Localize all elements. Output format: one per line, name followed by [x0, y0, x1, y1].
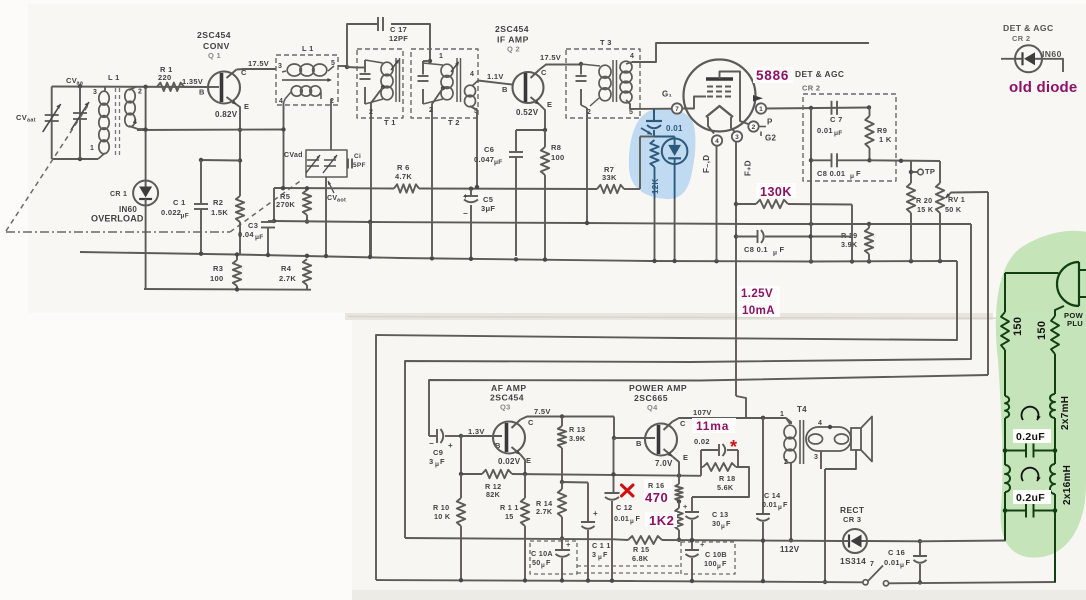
- svg-text:C3: C3: [248, 221, 258, 230]
- svg-text:RV 1: RV 1: [948, 195, 965, 204]
- svg-text:CV: CV: [66, 76, 77, 85]
- svg-text:B: B: [636, 439, 642, 448]
- svg-text:F: F: [546, 558, 551, 567]
- svg-text:E: E: [244, 102, 249, 111]
- svg-text:C6: C6: [484, 145, 494, 154]
- svg-text:μ: μ: [778, 504, 782, 511]
- svg-text:1: 1: [90, 145, 94, 152]
- svg-text:μ: μ: [435, 461, 439, 468]
- svg-text:4: 4: [470, 71, 474, 78]
- svg-text:B: B: [502, 85, 508, 94]
- svg-text:5: 5: [331, 60, 335, 67]
- svg-text:3.9K: 3.9K: [841, 240, 858, 249]
- svg-text:4: 4: [630, 53, 634, 60]
- svg-text:DET & AGC: DET & AGC: [1003, 23, 1054, 33]
- svg-text:F₊D: F₊D: [744, 160, 753, 176]
- svg-text:7.0V: 7.0V: [655, 459, 673, 468]
- svg-text:3: 3: [814, 454, 818, 461]
- svg-text:107V: 107V: [693, 408, 712, 417]
- svg-text:0.02V: 0.02V: [498, 457, 521, 466]
- svg-text:μ: μ: [598, 554, 602, 561]
- svg-text:+: +: [593, 509, 598, 518]
- svg-text:2x16mH: 2x16mH: [1062, 465, 1073, 505]
- svg-text:1: 1: [439, 53, 443, 60]
- svg-text:C 12: C 12: [616, 503, 632, 512]
- svg-text:270K: 270K: [276, 200, 295, 209]
- svg-text:5PF: 5PF: [353, 162, 366, 169]
- svg-text:4: 4: [818, 420, 822, 427]
- svg-text:R 1 1: R 1 1: [500, 503, 519, 512]
- svg-text:17.5V: 17.5V: [540, 53, 561, 62]
- svg-text:CVad: CVad: [284, 152, 303, 159]
- svg-text:C 1 1: C 1 1: [592, 541, 611, 550]
- svg-text:3μF: 3μF: [481, 204, 495, 213]
- svg-text:TP: TP: [925, 167, 935, 176]
- svg-text:G2: G2: [765, 134, 777, 143]
- svg-text:E: E: [547, 100, 552, 109]
- svg-text:F: F: [726, 519, 731, 528]
- svg-text:C9: C9: [433, 448, 443, 457]
- svg-text:+: +: [683, 502, 688, 511]
- svg-text:Q 1: Q 1: [208, 51, 221, 60]
- svg-text:F: F: [780, 245, 785, 254]
- svg-text:C 16: C 16: [888, 548, 905, 557]
- svg-text:112V: 112V: [780, 545, 800, 554]
- svg-text:0.01: 0.01: [762, 500, 777, 509]
- svg-text:R2: R2: [213, 198, 223, 207]
- svg-text:0.52V: 0.52V: [516, 108, 539, 117]
- svg-text:T 2: T 2: [448, 118, 460, 127]
- svg-text:1.3V: 1.3V: [468, 427, 485, 436]
- svg-text:CR 2: CR 2: [1012, 34, 1030, 43]
- svg-text:P: P: [767, 118, 773, 127]
- svg-text:F: F: [440, 457, 445, 466]
- svg-text:C: C: [528, 418, 534, 427]
- svg-text:2.7K: 2.7K: [279, 274, 296, 283]
- svg-text:7: 7: [870, 561, 874, 568]
- svg-text:+: +: [700, 540, 705, 549]
- svg-text:12K: 12K: [651, 178, 660, 194]
- svg-text:CR 1: CR 1: [110, 191, 127, 198]
- svg-text:μ: μ: [773, 250, 777, 257]
- svg-text:100: 100: [704, 559, 717, 568]
- svg-text:L 1: L 1: [108, 73, 120, 82]
- svg-text:3: 3: [592, 550, 596, 559]
- svg-text:R 20: R 20: [916, 196, 932, 205]
- svg-text:15: 15: [505, 512, 514, 521]
- svg-text:R 16: R 16: [648, 481, 664, 490]
- svg-text:C 13: C 13: [712, 510, 728, 519]
- svg-text:5886: 5886: [756, 68, 789, 83]
- svg-text:2: 2: [369, 109, 373, 116]
- svg-text:R8: R8: [551, 143, 561, 152]
- svg-text:130K: 130K: [760, 185, 792, 199]
- svg-text:0.022: 0.022: [161, 208, 181, 217]
- svg-text:1 K: 1 K: [879, 135, 892, 144]
- svg-text:3: 3: [278, 63, 282, 70]
- svg-text:DET & AGC: DET & AGC: [795, 69, 844, 79]
- svg-text:C5: C5: [483, 195, 493, 204]
- svg-text:OVERLOAD: OVERLOAD: [91, 214, 144, 224]
- svg-text:2SC454: 2SC454: [490, 393, 524, 403]
- svg-text:G₁: G₁: [662, 90, 673, 99]
- svg-text:100: 100: [551, 153, 564, 162]
- svg-text:old diode: old diode: [1009, 79, 1077, 96]
- svg-text:150: 150: [1012, 317, 1024, 336]
- svg-text:L 1: L 1: [302, 44, 314, 53]
- svg-text:E: E: [683, 453, 688, 462]
- svg-text:μF: μF: [255, 234, 264, 241]
- svg-text:PLU: PLU: [1067, 319, 1083, 328]
- svg-text:T 3: T 3: [600, 38, 612, 47]
- svg-text:3.9K: 3.9K: [569, 434, 586, 443]
- svg-text:5: 5: [629, 109, 633, 116]
- svg-text:0.04: 0.04: [238, 230, 254, 239]
- svg-text:μ: μ: [850, 173, 854, 180]
- svg-text:100: 100: [210, 274, 223, 283]
- svg-text:R 6: R 6: [397, 163, 410, 172]
- svg-text:R4: R4: [281, 264, 292, 273]
- svg-text:12PF: 12PF: [389, 34, 408, 43]
- svg-text:B: B: [199, 88, 205, 97]
- svg-text:F: F: [783, 500, 788, 509]
- svg-text:10mA: 10mA: [742, 305, 775, 317]
- svg-text:μ: μ: [900, 562, 904, 569]
- svg-text:CV: CV: [16, 113, 27, 122]
- svg-text:T4: T4: [797, 405, 807, 414]
- svg-text:1.5K: 1.5K: [211, 208, 228, 217]
- svg-text:F: F: [906, 558, 911, 567]
- svg-text:1.35V: 1.35V: [182, 77, 203, 86]
- svg-text:T 1: T 1: [384, 118, 396, 127]
- svg-text:0.047: 0.047: [474, 155, 494, 164]
- svg-text:C 14: C 14: [764, 491, 780, 500]
- svg-text:50 K: 50 K: [945, 205, 962, 214]
- svg-text:50: 50: [532, 558, 541, 567]
- svg-text:−: −: [463, 209, 468, 218]
- svg-text:Ci: Ci: [354, 153, 361, 160]
- svg-text:POWER AMP: POWER AMP: [629, 383, 687, 393]
- svg-text:2: 2: [784, 459, 788, 466]
- svg-text:C 17: C 17: [390, 25, 407, 34]
- svg-text:C 10B: C 10B: [705, 550, 727, 559]
- svg-text:μF: μF: [494, 159, 503, 166]
- svg-text:1S314: 1S314: [840, 556, 866, 566]
- svg-text:Q 2: Q 2: [507, 45, 520, 54]
- svg-text:RECT: RECT: [840, 505, 865, 515]
- svg-text:17.5V: 17.5V: [248, 59, 269, 68]
- svg-text:−: −: [429, 439, 434, 448]
- svg-text:C 10A: C 10A: [531, 549, 553, 558]
- svg-text:0.82V: 0.82V: [215, 110, 238, 119]
- svg-text:AF AMP: AF AMP: [491, 383, 527, 393]
- svg-text:+: +: [448, 441, 453, 450]
- svg-text:+: +: [463, 192, 468, 201]
- svg-text:3: 3: [93, 89, 97, 96]
- svg-text:5.6K: 5.6K: [717, 483, 734, 492]
- svg-text:1: 1: [780, 411, 784, 418]
- svg-text:7: 7: [675, 106, 679, 113]
- svg-text:0.01: 0.01: [884, 558, 900, 567]
- svg-text:4: 4: [133, 119, 137, 126]
- svg-text:C 1: C 1: [173, 198, 186, 207]
- svg-text:150: 150: [1036, 321, 1048, 340]
- svg-text:C: C: [680, 419, 686, 428]
- svg-text:μF: μF: [181, 213, 190, 220]
- svg-text:F₋,D: F₋,D: [702, 155, 711, 173]
- svg-text:IN60: IN60: [1042, 49, 1062, 59]
- svg-text:1.25V: 1.25V: [741, 288, 773, 300]
- svg-text:4: 4: [279, 98, 283, 105]
- svg-text:F: F: [603, 550, 608, 559]
- svg-text:2: 2: [138, 89, 142, 96]
- svg-text:2SC665: 2SC665: [634, 393, 668, 403]
- svg-text:F: F: [722, 559, 727, 568]
- svg-text:0.2uF: 0.2uF: [1016, 431, 1045, 443]
- svg-text:CR 2: CR 2: [802, 84, 820, 93]
- svg-text:2x7mH: 2x7mH: [1060, 396, 1071, 430]
- svg-text:CR 3: CR 3: [843, 515, 861, 524]
- svg-text:0.01: 0.01: [817, 126, 833, 135]
- svg-text:aot: aot: [337, 198, 346, 204]
- svg-text:470: 470: [645, 490, 668, 505]
- svg-text:CV: CV: [327, 195, 337, 202]
- svg-text:2SC454: 2SC454: [197, 30, 231, 40]
- svg-text:C8 0.1: C8 0.1: [744, 245, 768, 254]
- svg-text:0.01: 0.01: [666, 124, 683, 133]
- svg-text:IF AMP: IF AMP: [497, 35, 529, 45]
- svg-text:2SC454: 2SC454: [495, 24, 529, 34]
- svg-text:Q3: Q3: [500, 403, 511, 412]
- svg-text:82K: 82K: [486, 490, 501, 499]
- svg-text:R 13: R 13: [569, 425, 585, 434]
- svg-text:220: 220: [158, 73, 171, 82]
- svg-text:R 18: R 18: [719, 474, 735, 483]
- svg-text:2: 2: [587, 109, 591, 116]
- svg-text:30: 30: [712, 519, 721, 528]
- svg-text:C: C: [541, 68, 547, 77]
- svg-text:R9: R9: [877, 126, 887, 135]
- svg-text:+: +: [566, 540, 571, 549]
- svg-text:F: F: [636, 514, 641, 523]
- svg-text:1: 1: [759, 106, 763, 113]
- svg-text:CONV: CONV: [203, 41, 230, 51]
- svg-text:1K2: 1K2: [649, 513, 674, 528]
- svg-text:0.02: 0.02: [694, 437, 710, 446]
- svg-text:μ: μ: [717, 563, 721, 570]
- svg-text:μ: μ: [541, 562, 545, 569]
- svg-text:E: E: [526, 456, 531, 465]
- svg-text:10 K: 10 K: [434, 512, 451, 521]
- svg-text:μ: μ: [721, 523, 725, 530]
- svg-text:μ: μ: [630, 518, 634, 525]
- svg-text:C 7: C 7: [830, 115, 843, 124]
- svg-text:R 15: R 15: [633, 545, 649, 554]
- svg-text:Q4: Q4: [647, 403, 658, 412]
- svg-text:3: 3: [735, 134, 739, 141]
- svg-text:*: *: [730, 437, 737, 457]
- svg-text:C8 0.01: C8 0.01: [817, 169, 845, 178]
- svg-text:3: 3: [429, 457, 433, 466]
- svg-text:1.1V: 1.1V: [487, 72, 504, 81]
- svg-text:0.01: 0.01: [614, 514, 629, 523]
- svg-text:2.7K: 2.7K: [536, 507, 553, 516]
- svg-text:15 K: 15 K: [917, 205, 934, 214]
- svg-text:R 10: R 10: [433, 503, 449, 512]
- svg-text:33K: 33K: [602, 173, 617, 182]
- svg-text:R 19: R 19: [841, 231, 857, 240]
- svg-text:0.2uF: 0.2uF: [1016, 492, 1045, 504]
- svg-text:aat: aat: [27, 118, 36, 124]
- svg-text:4.7K: 4.7K: [395, 172, 412, 181]
- svg-text:μF: μF: [834, 130, 843, 137]
- svg-text:4: 4: [715, 138, 719, 145]
- svg-text:R3: R3: [213, 264, 223, 273]
- svg-text:7.5V: 7.5V: [534, 407, 551, 416]
- svg-text:6.8K: 6.8K: [632, 554, 649, 563]
- svg-text:aa: aa: [77, 81, 84, 87]
- svg-text:11ma: 11ma: [696, 419, 729, 433]
- svg-text:2: 2: [752, 124, 756, 131]
- svg-text:F: F: [856, 169, 861, 178]
